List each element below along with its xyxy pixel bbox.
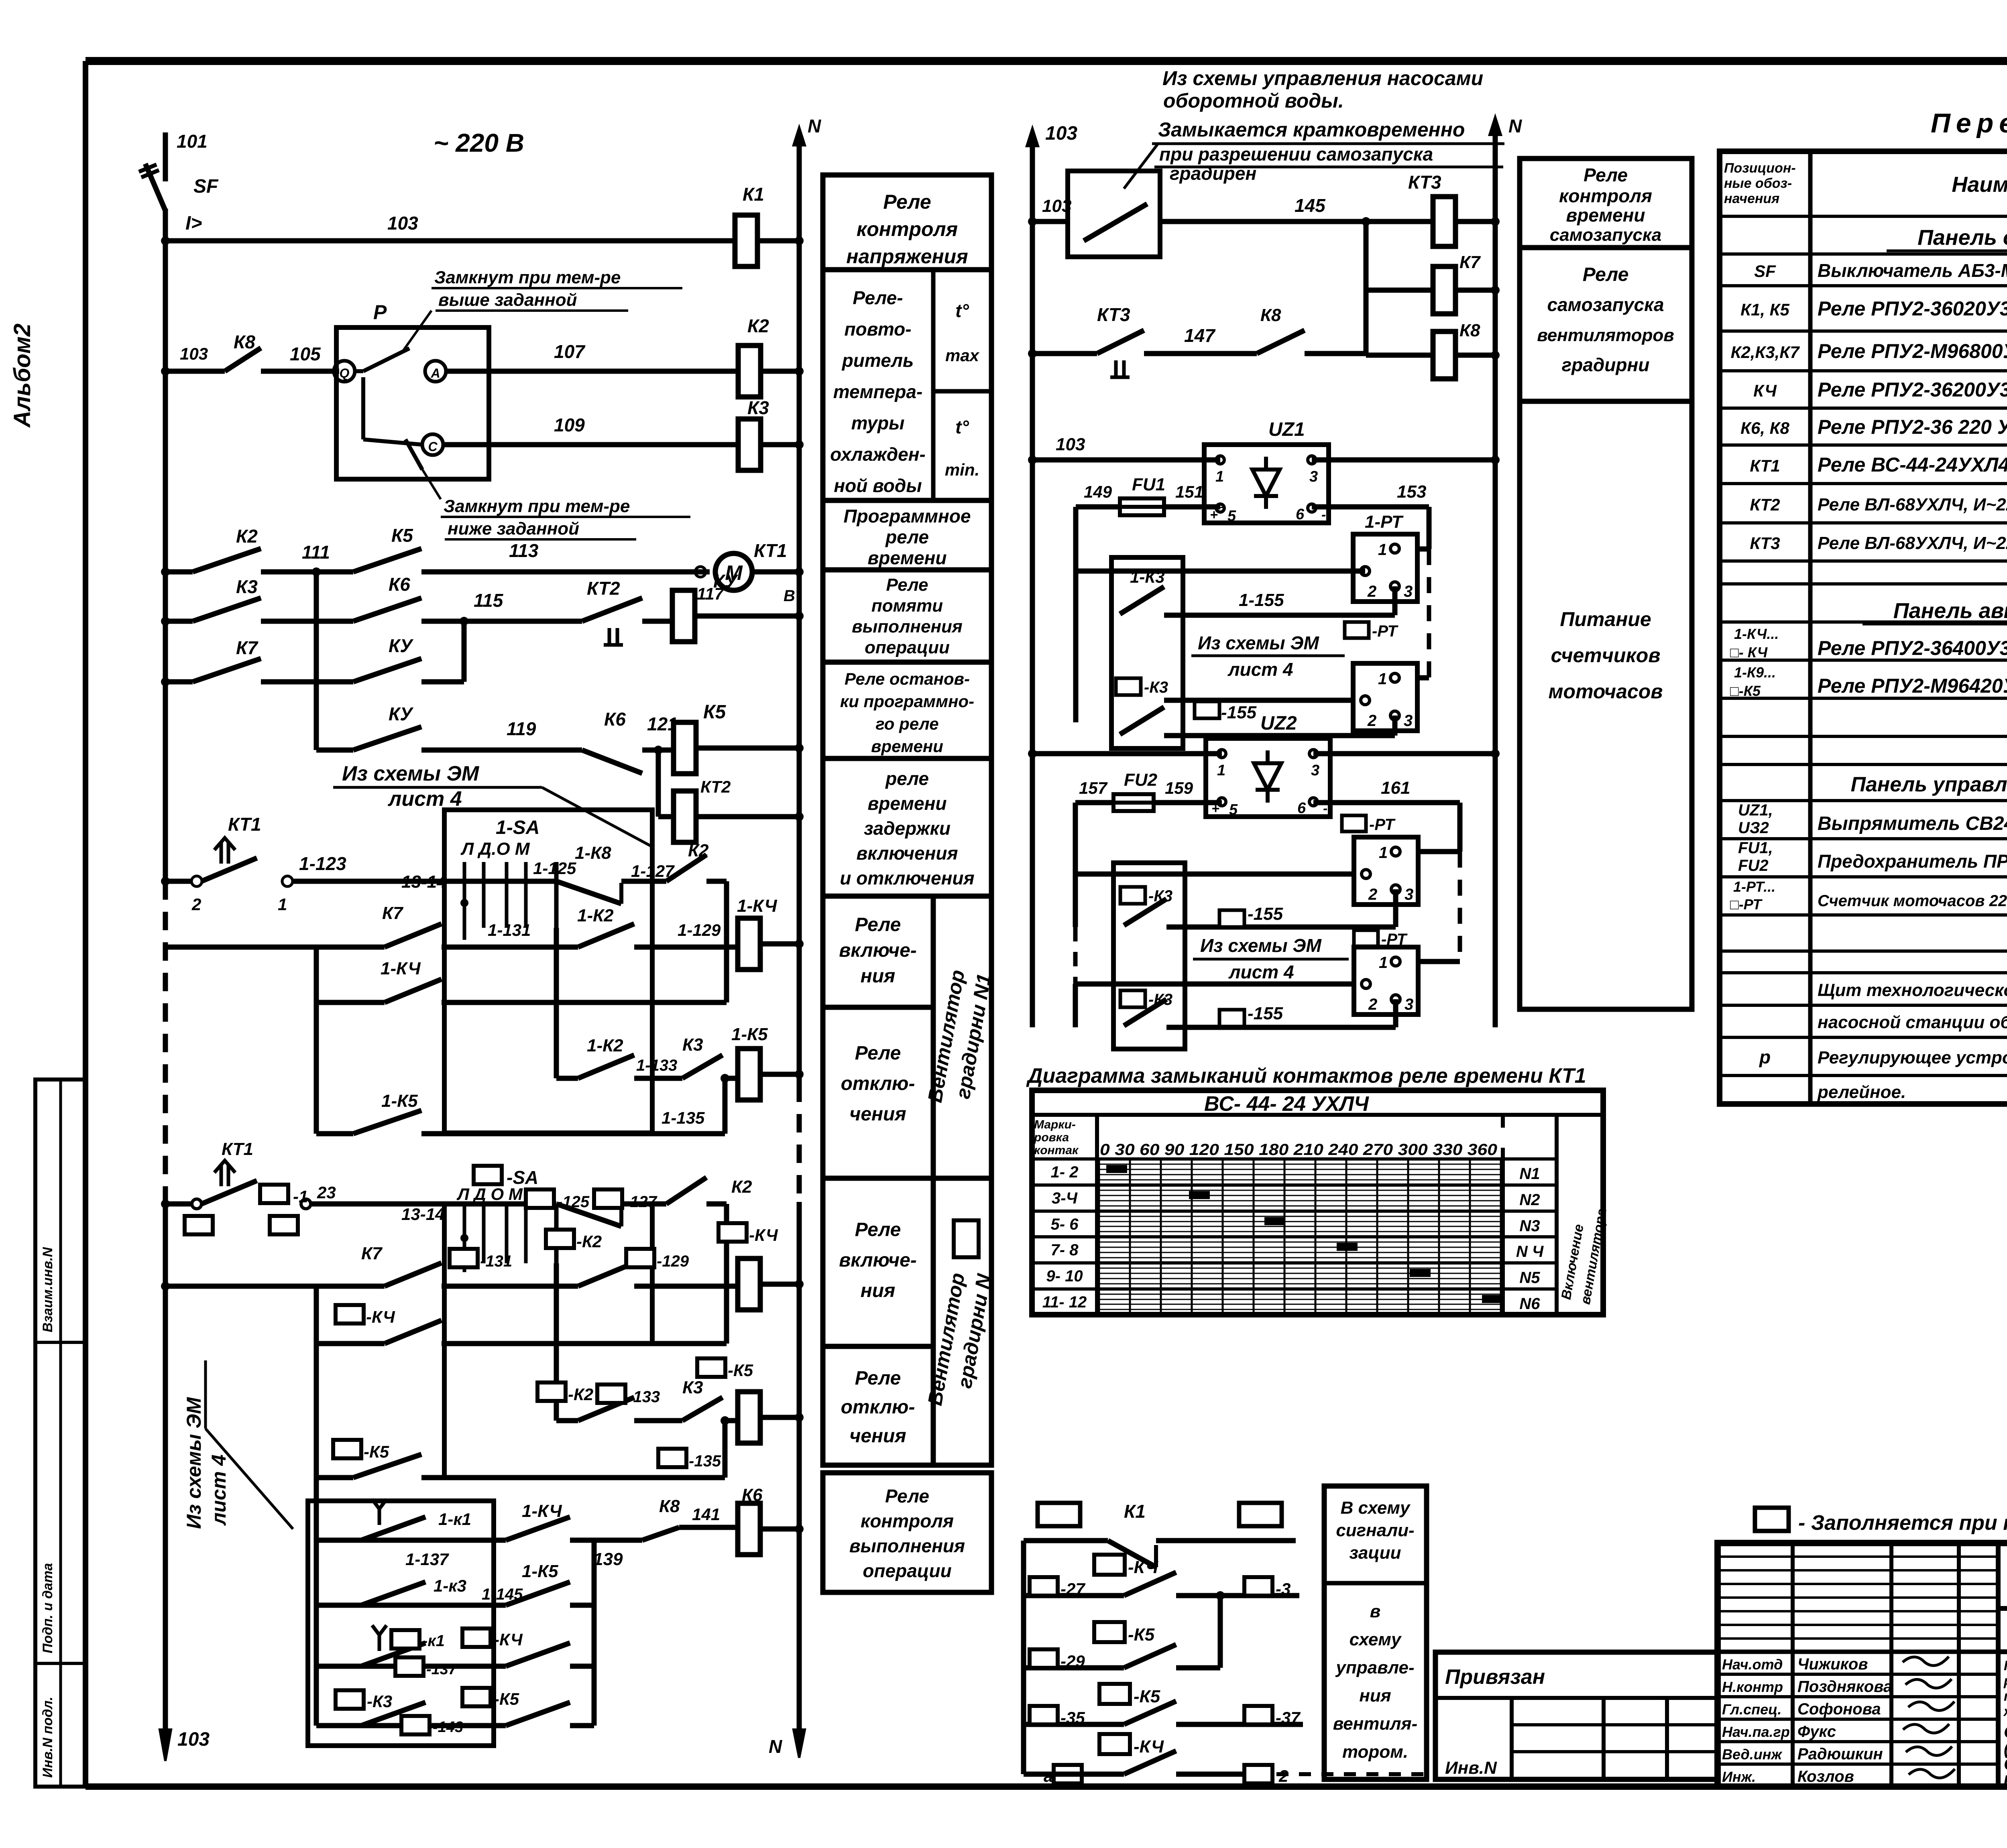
svg-text:КТ3: КТ3: [1097, 304, 1130, 325]
wire 111: [261, 569, 353, 575]
svg-text:109: 109: [554, 415, 585, 435]
svg-text:1: 1: [1215, 468, 1224, 485]
svg-text:1-К3: 1-К3: [1130, 567, 1165, 586]
svg-text:3: 3: [1311, 762, 1319, 779]
wire 103 to UZ2: [1032, 751, 1222, 756]
svg-text:Н.контр: Н.контр: [1722, 1679, 1783, 1695]
svg-text:Реле РПУ2-36 220 У3, И~220В: Реле РПУ2-36 220 У3, И~220В: [1818, 416, 2007, 438]
svg-text:лист 4: лист 4: [387, 787, 462, 811]
svg-text:Альбом2: Альбом2: [9, 323, 35, 428]
svg-text:1-РТ...: 1-РТ...: [1733, 878, 1775, 895]
svg-text:t°: t°: [955, 300, 969, 321]
svg-text:ния: ния: [861, 966, 896, 987]
svg-text:при разрешении самозапуска: при разрешении самозапуска: [1159, 144, 1433, 165]
relay coil K7: [1433, 266, 1455, 314]
wire: [760, 1072, 799, 1077]
title block left grid: [1718, 1650, 1998, 1654]
wire: [760, 369, 799, 374]
svg-text:1-КЧ: 1-КЧ: [737, 896, 777, 916]
wire 107: [446, 369, 739, 374]
svg-text:-К5: -К5: [494, 1689, 519, 1708]
wire rail 103 vertical: [163, 209, 168, 881]
wire: [556, 1418, 578, 1423]
wire: [760, 442, 799, 447]
contact K2 up b: [666, 1177, 706, 1204]
svg-text:-КЧ: -КЧ: [749, 1226, 778, 1244]
wire rail 101/103 left: [163, 132, 168, 181]
relay coil KU: [672, 590, 695, 642]
contact 1-K4: [385, 979, 442, 1002]
diagram N col: [1501, 1148, 1505, 1315]
svg-text:N: N: [1508, 116, 1522, 136]
wire: [752, 569, 799, 575]
svg-text:К2: К2: [236, 526, 258, 547]
svg-text:1-К2: 1-К2: [587, 1036, 623, 1055]
wire: [1024, 1665, 1124, 1671]
svg-text:С: С: [428, 439, 438, 454]
wire: [760, 1527, 799, 1532]
svg-text:161: 161: [1381, 778, 1410, 798]
svg-text:В схему: В схему: [1341, 1498, 1411, 1518]
wire: [1176, 1593, 1299, 1598]
svg-text:1-123: 1-123: [299, 853, 346, 874]
contact K3 b: [682, 1055, 723, 1078]
wire: [634, 1418, 682, 1423]
svg-text:1-К8: 1-К8: [575, 843, 611, 863]
svg-text:1-КЧ: 1-КЧ: [522, 1501, 562, 1521]
bus bottom: [314, 1540, 319, 1726]
svg-text:3: 3: [1404, 712, 1413, 730]
svg-text:~ 220 В: ~ 220 В: [434, 128, 524, 157]
wire: [316, 1603, 506, 1608]
placeholder -K2: [546, 1230, 574, 1248]
svg-text:max: max: [945, 346, 980, 365]
node circle: [192, 1199, 202, 1209]
relay coil 1-K4: [738, 918, 760, 970]
svg-text:Панель управления и сигнализац: Панель управления и сигнализации: [1851, 773, 2007, 796]
svg-text:контроля: контроля: [857, 218, 958, 240]
svg-text:реле: реле: [885, 527, 929, 547]
left loop vertical: [1073, 507, 1079, 722]
wire: [1366, 353, 1433, 358]
function box: rele kontrolya vremeni samozapuska: [1520, 159, 1692, 248]
svg-text:ровка: ровка: [1034, 1131, 1069, 1144]
svg-text:Панель автоматики: Панель автоматики: [1893, 599, 2007, 623]
wire: [165, 1284, 385, 1289]
contact 1-K3 g: [361, 1582, 425, 1605]
rectifier UZ2: [1206, 738, 1330, 817]
svg-text:-155: -155: [1248, 1004, 1283, 1023]
svg-text:К2: К2: [731, 1177, 752, 1197]
contact KT1 b: [202, 1181, 257, 1204]
svg-text:147: 147: [1184, 325, 1216, 346]
contact -K4: [385, 1320, 442, 1344]
svg-text:выполнения: выполнения: [852, 617, 963, 636]
branch bus: [314, 1478, 319, 1540]
wire: [316, 1723, 506, 1728]
branch: [554, 1263, 559, 1421]
wire 159: [1154, 800, 1222, 805]
svg-text:SF: SF: [193, 176, 219, 197]
wire: [261, 619, 353, 624]
function box: programmnoe rele vremeni: [823, 500, 991, 570]
wire 141: [679, 1525, 737, 1530]
svg-text:Гл.спец.: Гл.спец.: [1722, 1701, 1781, 1718]
svg-text:релейное.: релейное.: [1817, 1082, 1906, 1102]
wire rail 103 dashed section: [163, 881, 168, 1202]
svg-text:Инв.N: Инв.N: [1445, 1758, 1497, 1778]
svg-text:-143: -143: [433, 1719, 463, 1736]
svg-text:N Ч: N Ч: [1516, 1243, 1544, 1260]
svg-text:3: 3: [1404, 886, 1413, 903]
wire: [760, 1282, 799, 1287]
svg-text:Замкнут при тем-ре: Замкнут при тем-ре: [434, 268, 621, 287]
svg-text:схему: схему: [1350, 1630, 1402, 1649]
contact K8 m: [1257, 330, 1305, 354]
svg-text:Реле ВЛ-68УХЛЧ, И~220В, В.в.Q1: Реле ВЛ-68УХЛЧ, И~220В, В.в.Q1...999мин: [1818, 495, 2007, 514]
contact 1-K2: [578, 924, 634, 947]
contact K7: [385, 924, 442, 947]
svg-text:1-К9...: 1-К9...: [1734, 664, 1776, 681]
contact -K5 g: [506, 1702, 570, 1726]
svg-text:Вед.инж: Вед.инж: [1722, 1746, 1783, 1763]
svg-text:КТ2: КТ2: [1750, 495, 1780, 514]
wire rail 103 mid: [1027, 128, 1038, 146]
svg-text:-37: -37: [1276, 1708, 1301, 1727]
title block frame: [1718, 1543, 2007, 1787]
contact box-K3: [1116, 678, 1141, 695]
contact K7 b: [385, 1263, 442, 1286]
svg-text:N2: N2: [1519, 1191, 1540, 1209]
wire 109: [443, 442, 739, 447]
rectifier UZ1: [1204, 445, 1329, 523]
svg-text:-155: -155: [1248, 904, 1283, 924]
svg-text:1-SA: 1-SA: [496, 817, 539, 838]
svg-text:Нач.отд: Нач.отд: [1722, 1656, 1783, 1673]
wire -155 c: [1166, 1025, 1396, 1030]
svg-text:159: 159: [1165, 779, 1193, 797]
svg-text:FU1,: FU1,: [1738, 839, 1773, 857]
group box: [308, 1501, 494, 1746]
wire: [316, 748, 353, 753]
svg-text:зации: зации: [1349, 1543, 1401, 1563]
svg-text:Взаим.инв.N: Взаим.инв.N: [40, 1247, 55, 1332]
svg-text:темпера-: темпера-: [833, 381, 923, 402]
svg-text:Инж.: Инж.: [1722, 1769, 1756, 1785]
svg-text:141: 141: [692, 1505, 720, 1524]
remote contact box: [1068, 171, 1160, 257]
relay coil K6: [738, 1503, 760, 1555]
svg-text:КТ1: КТ1: [222, 1139, 253, 1159]
flag contact 1-k1: [361, 1517, 425, 1540]
svg-text:-К2: -К2: [576, 1232, 602, 1251]
fuse FU2: [1113, 794, 1154, 811]
wire 105: [261, 369, 339, 374]
wire 113: [421, 569, 710, 575]
wire 1-123: [292, 879, 444, 884]
wire to node 115: [421, 679, 464, 685]
svg-text:Из схемы ЭМ: Из схемы ЭМ: [1198, 632, 1319, 653]
wire: [1032, 351, 1097, 356]
contact -K2: [578, 1263, 634, 1286]
placeholder -K4 c: [336, 1305, 364, 1323]
wire 103-145: [1032, 219, 1068, 224]
svg-text:-135: -135: [689, 1452, 721, 1470]
contact -K3 g: [361, 1702, 425, 1726]
wire rail N mid: [1490, 117, 1501, 135]
wire: [316, 1131, 353, 1136]
placeholder -K2 b: [537, 1382, 566, 1401]
motor relay KT1: [715, 553, 752, 590]
svg-text:самозапуска: самозапуска: [1547, 294, 1664, 315]
placeholder -127: [594, 1189, 622, 1208]
function box: rele pamyati: [823, 570, 991, 662]
svg-text:К6: К6: [604, 709, 626, 730]
contact K1 s: [1108, 1541, 1156, 1567]
wire: [1455, 288, 1495, 293]
svg-text:Из схемы ЭМ: Из схемы ЭМ: [342, 762, 480, 785]
svg-text:Градирня трехсекционная с вент: Градирня трехсекционная с вентилято-: [2004, 1658, 2007, 1673]
svg-text:+: +: [1210, 507, 1218, 522]
svg-text:107: 107: [554, 341, 586, 362]
svg-text:1-137: 1-137: [405, 1550, 449, 1569]
contact -K4 g: [506, 1643, 570, 1666]
wire: [442, 1341, 727, 1346]
svg-text:1: 1: [1379, 954, 1388, 972]
svg-text:операции: операции: [863, 1560, 951, 1581]
svg-text:1-133: 1-133: [636, 1057, 677, 1074]
svg-text:самозапуска: самозапуска: [1550, 225, 1661, 245]
sheet frame: [85, 57, 2007, 65]
flag contact -k1: [361, 1643, 425, 1666]
svg-text:ные обоз-: ные обоз-: [1724, 176, 1792, 191]
svg-text:Реле: Реле: [855, 914, 901, 935]
svg-text:А: А: [430, 366, 440, 380]
wire rail 103 lower: [163, 1202, 168, 1730]
svg-text:-КЧ: -КЧ: [366, 1307, 395, 1326]
svg-text:К8: К8: [234, 331, 255, 352]
relay coil K3: [738, 419, 761, 470]
svg-text:-К5: -К5: [728, 1361, 753, 1380]
svg-text:Козлов: Козлов: [1797, 1768, 1854, 1785]
svg-text:-137: -137: [426, 1661, 458, 1678]
svg-text:-К3: -К3: [367, 1692, 392, 1711]
left loop vertical 2: [1073, 803, 1078, 927]
wire: [570, 1603, 594, 1608]
svg-text:Реле РПУ2-М96420У3, И~220В: Реле РПУ2-М96420У3, И~220В: [1818, 675, 2007, 697]
svg-text:ниже заданной: ниже заданной: [448, 519, 579, 539]
wire: [634, 1284, 735, 1289]
terminal C: [422, 434, 443, 455]
wire -155 b: [1166, 925, 1396, 930]
svg-text:градирен: градирен: [1170, 163, 1256, 184]
svg-text:Реле ВС-44-24УХЛ4; И~220В: Реле ВС-44-24УХЛ4; И~220В: [1818, 453, 2007, 476]
placeholder -1: [260, 1185, 288, 1203]
svg-text:К5: К5: [391, 525, 413, 546]
svg-text:113: 113: [509, 540, 539, 561]
svg-text:N3: N3: [1519, 1217, 1540, 1235]
svg-text:1-155: 1-155: [1239, 590, 1284, 610]
contact -K3 t: [1120, 887, 1145, 904]
wire: [570, 1723, 594, 1728]
wire 117: [642, 619, 673, 624]
function box: rele povtoritel: [823, 270, 991, 500]
svg-text:N6: N6: [1519, 1295, 1540, 1313]
svg-text:КУ: КУ: [713, 571, 739, 592]
svg-text:151: 151: [1175, 482, 1203, 501]
svg-text:UЗ2: UЗ2: [1738, 819, 1769, 837]
svg-text:операции: операции: [865, 638, 950, 657]
placeholder -RT 2: [1342, 815, 1366, 831]
svg-text:ния: ния: [1359, 1686, 1391, 1706]
hour counter box RT4: [1354, 947, 1418, 1014]
svg-text:лист 4: лист 4: [208, 1454, 230, 1526]
wire: [694, 614, 799, 619]
svg-text:Реле: Реле: [1584, 165, 1628, 185]
svg-text:сигнали-: сигнали-: [1336, 1521, 1414, 1540]
svg-text:3-Ч: 3-Ч: [1052, 1189, 1078, 1207]
title block small rows: [1718, 1555, 1998, 1558]
svg-text:площадью 64 кв.м с каркасом из: площадью 64 кв.м с каркасом из: [2004, 1689, 2007, 1704]
svg-text:119: 119: [507, 718, 536, 739]
svg-text:в: в: [1370, 1602, 1381, 1621]
svg-text:отклю-: отклю-: [841, 1073, 915, 1094]
svg-text:Реле РПУ2-36020У3, И~220В: Реле РПУ2-36020У3, И~220В: [1818, 297, 2007, 320]
wire 103-105: [165, 369, 225, 374]
node N rail top: [794, 128, 805, 145]
wire: [261, 679, 353, 685]
svg-text:времени: времени: [868, 793, 947, 814]
svg-text:КЧ: КЧ: [1753, 381, 1777, 400]
diagram table frame: [1032, 1090, 1603, 1315]
svg-text:тором.: тором.: [1342, 1742, 1408, 1762]
svg-text:Радюшкин: Радюшкин: [1797, 1745, 1883, 1763]
contact KU(K4): [353, 659, 421, 682]
svg-text:КТ3: КТ3: [1750, 534, 1780, 553]
svg-text:К6, К8: К6, К8: [1740, 419, 1789, 437]
svg-text:2: 2: [191, 895, 201, 914]
contact K8 down: [642, 1527, 679, 1540]
svg-text:7- 8: 7- 8: [1051, 1241, 1079, 1259]
wire: [165, 679, 193, 685]
svg-text:Счетчик моточасов 228-Чп, И-2: Счетчик моточасов 228-Чп, И-24В, емк=999…: [1818, 892, 2007, 910]
function box: rele vklyucheniya 1: [823, 896, 933, 1007]
wire: [165, 1202, 192, 1207]
svg-text:К3: К3: [747, 397, 769, 418]
svg-text:К2: К2: [688, 841, 709, 860]
wire to pin2: [1076, 569, 1353, 574]
wire 1-155: [1164, 613, 1395, 618]
svg-text:лист 4: лист 4: [1228, 962, 1294, 982]
svg-text:Реле: Реле: [855, 1219, 901, 1240]
svg-text:Диаграмма замыканий контактов: Диаграмма замыканий контактов реле време…: [1026, 1064, 1586, 1088]
wire: [757, 238, 799, 244]
svg-text:Общие цепи вентиляторов: Общие цепи вентиляторов: [2004, 1722, 2007, 1741]
svg-text:-131: -131: [480, 1252, 512, 1270]
diagram closure marks: [1106, 1165, 1127, 1173]
svg-text:-27: -27: [1060, 1580, 1085, 1598]
svg-text:Реле: Реле: [1583, 264, 1629, 285]
svg-text:-к1: -к1: [422, 1632, 445, 1650]
svg-text:рами 2ВГ 50 пленочная с секция: рами 2ВГ 50 пленочная с секциями: [2003, 1673, 2007, 1689]
svg-text:P: P: [373, 301, 387, 323]
svg-text:3: 3: [1309, 468, 1318, 485]
wire: [311, 1202, 556, 1207]
svg-text:Реле: Реле: [883, 191, 931, 213]
svg-text:Питание: Питание: [1560, 608, 1651, 630]
wire 1-131: [442, 945, 578, 950]
svg-text:FU1: FU1: [1132, 475, 1165, 494]
svg-text:ния: ния: [861, 1280, 896, 1301]
svg-text:Подп. и дата: Подп. и дата: [40, 1563, 55, 1653]
wire: [1024, 1593, 1124, 1598]
svg-text:Регулирующее устройство пози: Регулирующее устройство позиционное,: [1818, 1048, 2007, 1067]
svg-text:9- 10: 9- 10: [1046, 1267, 1083, 1285]
svg-text:103: 103: [387, 213, 418, 234]
svg-text:Фукс: Фукс: [1797, 1723, 1836, 1740]
wire: [1024, 1538, 1108, 1543]
svg-text:ной воды: ной воды: [834, 475, 922, 496]
svg-text:1-КЧ...: 1-КЧ...: [1734, 626, 1779, 642]
svg-text:чения: чения: [849, 1104, 906, 1125]
svg-text:К3: К3: [236, 576, 258, 597]
svg-text:КТ2: КТ2: [700, 777, 731, 796]
svg-text:153: 153: [1397, 482, 1426, 502]
svg-text:КТ1: КТ1: [754, 540, 787, 561]
svg-text:-РТ: -РТ: [1369, 816, 1396, 834]
wire 157: [1075, 800, 1113, 805]
svg-text:К5: К5: [703, 701, 727, 723]
placeholder -129: [626, 1249, 654, 1267]
wire: [1176, 1665, 1220, 1671]
contact -K5: [353, 1454, 421, 1478]
svg-text:1: 1: [278, 895, 287, 914]
wire: [316, 1538, 425, 1543]
svg-text:101: 101: [177, 131, 208, 152]
wire UZ2 to N: [1313, 751, 1495, 756]
svg-text:103: 103: [1056, 435, 1085, 454]
svg-text:К7: К7: [236, 637, 259, 658]
wire N dashed: [797, 1084, 802, 1202]
branch to KT2 coil: [656, 750, 661, 817]
function box: rele kontrolya napryazheniya: [823, 175, 991, 270]
wire 151: [1164, 504, 1220, 510]
svg-text:Позицион-: Позицион-: [1724, 161, 1796, 176]
wire: [1417, 849, 1460, 854]
label box-SA: [474, 1166, 502, 1184]
svg-text:чения: чения: [849, 1425, 906, 1447]
controller P box: [336, 327, 489, 479]
svg-text:□-К5: □-К5: [1730, 683, 1761, 699]
svg-text:-К5: -К5: [364, 1442, 389, 1461]
wire: [696, 814, 799, 819]
svg-text:3: 3: [1404, 996, 1413, 1013]
wire: [621, 1202, 666, 1207]
svg-text:отклю-: отклю-: [841, 1397, 915, 1418]
placeholder -K4 coil lbl: [719, 1223, 747, 1242]
svg-text:2: 2: [1368, 886, 1377, 903]
svg-text:Позднякова: Позднякова: [1797, 1678, 1892, 1696]
svg-text:SF: SF: [1754, 262, 1776, 281]
hour counter box 1-RT: [1353, 534, 1417, 602]
wire: [1366, 288, 1433, 293]
svg-text:-К5: -К5: [1128, 1625, 1155, 1645]
relay coil K2: [738, 346, 761, 397]
svg-text:тin.: тin.: [945, 460, 979, 479]
svg-text:-29: -29: [1060, 1652, 1085, 1671]
svg-text:В: В: [784, 587, 795, 605]
relay coil KT2: [674, 791, 696, 842]
